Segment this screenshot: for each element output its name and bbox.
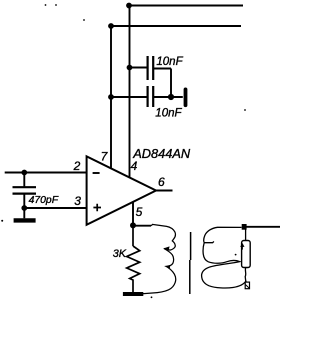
wire non-inverting input pin3	[24, 207, 86, 209]
svg-text:10nF: 10nF	[156, 56, 183, 68]
node junction square secondary top	[242, 224, 247, 230]
wire vertical supply V- to pin4	[129, 6, 131, 178]
inductor L1 hand-drawn primary coil	[142, 224, 176, 293]
capacitor C1 10nF plates	[148, 56, 154, 80]
inductor L1 cusp arrowhead 2	[165, 265, 170, 269]
wire vertical supply V+ to pin7	[110, 26, 112, 168]
ground G2	[123, 292, 143, 296]
wire to C1 left plate	[130, 67, 147, 69]
svg-text:6: 6	[158, 175, 165, 189]
wire C2 right plate to terminal	[154, 96, 183, 98]
op-amp minus input sign	[93, 172, 100, 174]
wire top rail 1	[129, 5, 243, 7]
node junction dot pin5	[130, 222, 136, 228]
capacitor C3 470pF	[23, 173, 25, 187]
speck	[45, 4, 47, 6]
svg-text:2: 2	[73, 159, 81, 173]
capacitor C2 10nF plates	[148, 86, 154, 107]
speck	[1, 220, 3, 222]
node junction dot rail2	[108, 23, 114, 29]
ground G1	[23, 208, 25, 218]
svg-text:4: 4	[131, 159, 138, 173]
terminal bar	[184, 89, 188, 105]
speck	[244, 109, 246, 111]
wire output pin6	[156, 190, 173, 192]
speck	[235, 254, 237, 256]
inductor L2 hand-drawn secondary coil	[202, 227, 247, 288]
speck	[151, 296, 153, 298]
op-amp U1 triangle	[87, 156, 156, 224]
node junction dot C2 tap	[108, 94, 114, 100]
svg-text:AD844AN: AD844AN	[132, 146, 191, 161]
node junction dot rail1	[126, 3, 132, 9]
svg-text:470pF: 470pF	[29, 195, 59, 206]
speck	[83, 19, 85, 21]
resistor R1 3K	[127, 225, 140, 293]
wire load box bottom wiggle	[244, 268, 247, 282]
svg-text:3K: 3K	[113, 248, 127, 260]
wire to C2 left plate	[111, 96, 147, 98]
terminal small box B	[245, 282, 249, 289]
load box hand-drawn	[242, 241, 251, 268]
op-amp plus input sign	[93, 204, 101, 212]
node junction dot caps common	[168, 94, 174, 100]
load box arrow	[241, 245, 243, 249]
node junction dot C3 bottom	[21, 205, 27, 211]
wire pin5 node to coil	[133, 225, 151, 227]
svg-text:3: 3	[74, 194, 81, 208]
wire square to load box	[245, 230, 247, 241]
node junction dot C1 tap	[127, 65, 133, 71]
transformer core line	[189, 232, 192, 294]
svg-text:5: 5	[136, 205, 143, 219]
wire top rail 2	[111, 25, 241, 27]
wire C1 right plate down	[154, 69, 171, 97]
wire inverting input pin2	[5, 172, 87, 174]
inductor L1 cusp arrowhead	[163, 246, 169, 250]
wire secondary output right	[247, 226, 281, 228]
node junction dot C3 top	[21, 170, 27, 176]
wire pin5 down	[132, 202, 134, 225]
svg-text:10nF: 10nF	[155, 107, 182, 119]
speck	[55, 4, 57, 6]
